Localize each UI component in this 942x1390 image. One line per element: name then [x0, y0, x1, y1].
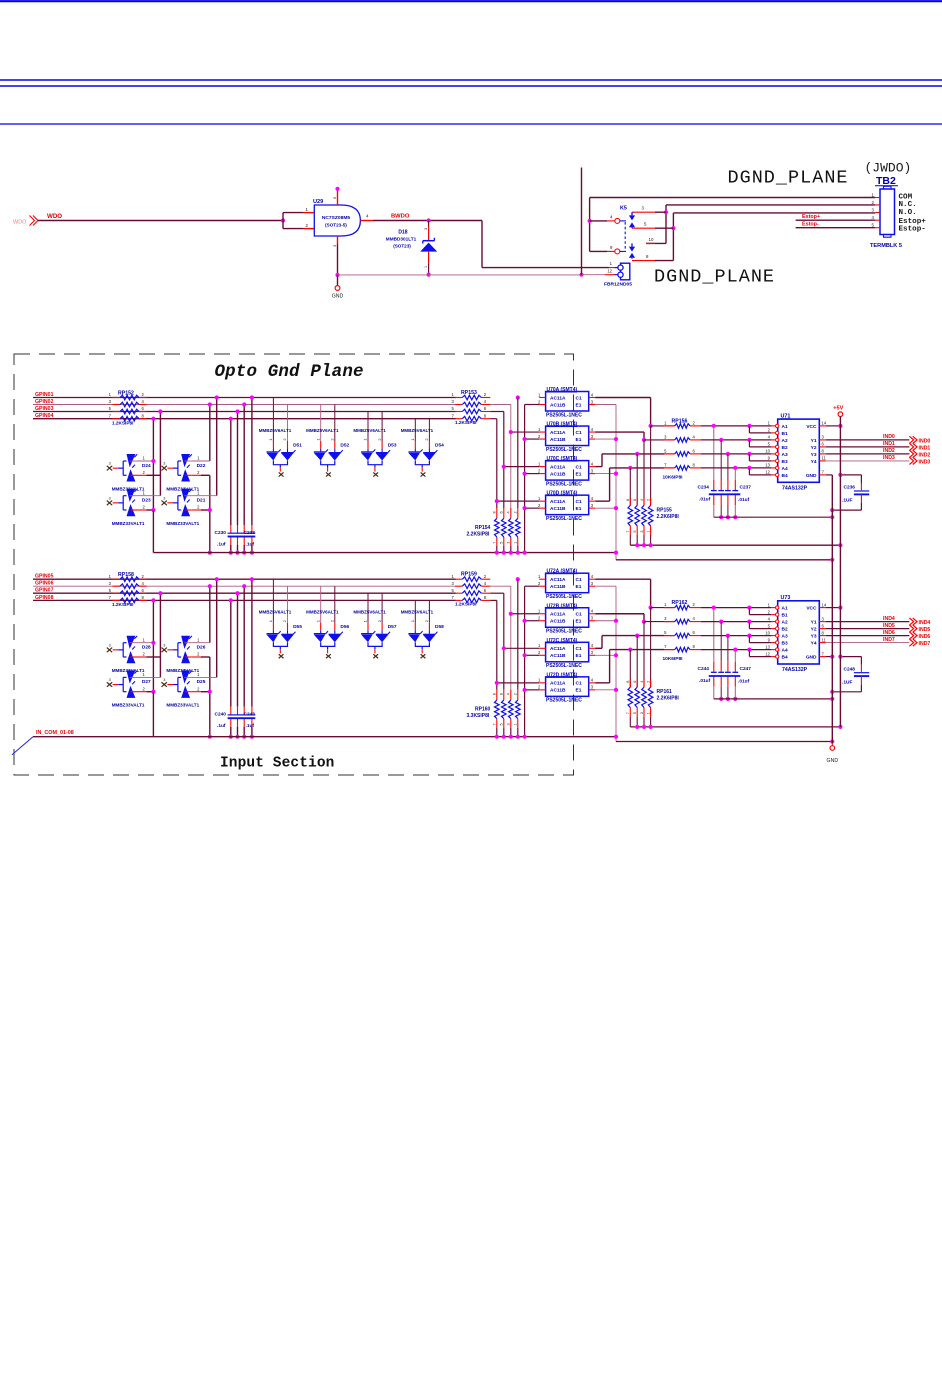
- svg-text:A3: A3: [782, 452, 788, 458]
- svg-text:4: 4: [610, 214, 613, 219]
- page border rule top: [0, 0, 942, 2]
- svg-text:1: 1: [538, 678, 541, 683]
- svg-text:C1: C1: [576, 430, 582, 436]
- wire filter column 3: [243, 405, 245, 526]
- svg-text:2: 2: [484, 392, 487, 397]
- wire gate B3 jog: [748, 636, 750, 643]
- svg-text:B3: B3: [782, 459, 788, 465]
- svg-text:D24: D24: [142, 463, 151, 469]
- tvs diode D51 MMBZ5V6ALT1: [272, 398, 274, 442]
- svg-text:A2: A2: [782, 438, 788, 444]
- wire TB2 pin2 NC to K5: [666, 204, 875, 206]
- svg-text:2: 2: [538, 399, 541, 404]
- pin 4 TB2: [875, 219, 880, 221]
- svg-text:1: 1: [610, 261, 613, 266]
- wire gate B1 jog: [748, 608, 750, 615]
- svg-text:IND0: IND0: [919, 438, 931, 444]
- svg-text:1.2KSIP8I: 1.2KSIP8I: [455, 420, 476, 425]
- svg-text:2.2K6IP8I: 2.2K6IP8I: [657, 514, 680, 520]
- svg-text:3: 3: [591, 650, 594, 655]
- svg-text:E1: E1: [576, 471, 582, 477]
- zener diode pair D26 MMBZ33VALT1: [162, 648, 167, 653]
- svg-text:2: 2: [424, 619, 429, 622]
- svg-text:AC11A: AC11A: [550, 681, 566, 687]
- wire output net IND0: [826, 439, 910, 441]
- svg-text:4: 4: [768, 616, 771, 621]
- tvs diode D58 MMBZ5V6ALT1: [414, 600, 416, 622]
- svg-text:RP162: RP162: [672, 600, 688, 606]
- svg-text:5: 5: [768, 623, 771, 628]
- port IND4: [909, 618, 913, 625]
- svg-text:12: 12: [607, 269, 612, 274]
- svg-text:1: 1: [646, 530, 650, 532]
- svg-text:MMBD301LT1: MMBD301LT1: [386, 237, 417, 242]
- svg-text:N.O.: N.O.: [899, 209, 917, 217]
- svg-text:8: 8: [693, 644, 696, 649]
- wire collector U_B to series resistor: [595, 431, 644, 433]
- svg-text:D56: D56: [340, 624, 349, 630]
- svg-text:1: 1: [872, 193, 875, 198]
- capacitor C230 .1uf: [228, 532, 242, 534]
- wire zener cluster row1 branch: [216, 579, 218, 677]
- svg-text:C1: C1: [576, 681, 582, 687]
- svg-text:1: 1: [514, 723, 518, 725]
- wire net GPIN07: [33, 592, 456, 594]
- svg-text:AC11B: AC11B: [550, 402, 566, 408]
- svg-text:C248: C248: [844, 666, 856, 672]
- svg-text:2: 2: [693, 420, 696, 425]
- svg-text:AC11B: AC11B: [550, 584, 566, 590]
- svg-text:E1: E1: [576, 653, 582, 659]
- svg-text:2: 2: [514, 511, 518, 513]
- wire gate B2 jog: [748, 622, 750, 629]
- svg-text:3: 3: [451, 581, 454, 586]
- resistor pack RP161 pull-ups: [650, 608, 652, 688]
- svg-text:2: 2: [197, 686, 200, 691]
- svg-text:IN_COM_01-08: IN_COM_01-08: [36, 730, 74, 736]
- svg-text:3: 3: [507, 542, 511, 544]
- svg-text:3: 3: [591, 616, 594, 621]
- svg-text:5: 5: [633, 712, 637, 714]
- svg-text:8: 8: [646, 254, 649, 259]
- svg-text:Y1: Y1: [811, 438, 817, 444]
- capacitor C236 .1UF bypass: [840, 474, 861, 476]
- svg-text:D51: D51: [293, 442, 302, 448]
- zener diode pair D22 MMBZ33VALT1: [162, 466, 167, 471]
- wire gate A3 input: [701, 635, 772, 637]
- svg-text:IND1: IND1: [883, 441, 895, 447]
- wire decoupling column 1: [713, 608, 715, 662]
- wire opto feed column 4: [490, 599, 497, 601]
- svg-text:C1: C1: [576, 395, 582, 401]
- svg-text:3: 3: [642, 206, 645, 211]
- wire net GPIN08: [33, 599, 456, 601]
- capacitor C244 .01uf: [711, 671, 717, 673]
- svg-text:1: 1: [538, 461, 541, 466]
- svg-text:4: 4: [591, 643, 594, 648]
- wire emitter common to ground rail: [616, 559, 832, 561]
- svg-text:12: 12: [765, 470, 770, 475]
- wire collector U_D to series resistor: [595, 500, 609, 502]
- svg-text:4: 4: [768, 435, 771, 440]
- wire U29 input split: [282, 213, 284, 229]
- svg-text:1: 1: [514, 542, 518, 544]
- svg-text:6: 6: [693, 448, 696, 453]
- wire filter column 1: [230, 600, 232, 706]
- pin 3 TB2: [875, 212, 880, 214]
- svg-text:AC11A: AC11A: [550, 646, 566, 652]
- svg-text:B4: B4: [782, 655, 788, 661]
- svg-text:GPIN04: GPIN04: [35, 413, 54, 419]
- pin 1 TB2: [875, 197, 880, 199]
- svg-text:1: 1: [451, 574, 454, 579]
- wire K5 pin10: [646, 242, 666, 244]
- svg-text:7: 7: [451, 413, 454, 418]
- svg-text:8: 8: [626, 499, 630, 501]
- svg-text:2: 2: [142, 686, 145, 691]
- svg-text:3: 3: [109, 581, 112, 586]
- svg-text:MMBZ5V6ALT1: MMBZ5V6ALT1: [306, 610, 339, 615]
- svg-text:11: 11: [822, 456, 827, 461]
- svg-text:2: 2: [424, 438, 429, 441]
- svg-text:A4: A4: [782, 466, 788, 472]
- svg-text:1: 1: [538, 609, 541, 614]
- svg-text:5: 5: [451, 588, 454, 593]
- svg-text:1: 1: [197, 672, 200, 677]
- wire zener cluster row1 branch: [216, 398, 218, 496]
- svg-text:2: 2: [646, 499, 650, 501]
- svg-text:5: 5: [872, 223, 875, 228]
- wire Estop+: [796, 219, 876, 221]
- svg-text:2: 2: [646, 681, 650, 683]
- svg-text:1: 1: [197, 490, 200, 495]
- svg-text:14: 14: [822, 602, 827, 607]
- svg-text:C1: C1: [576, 464, 582, 470]
- relay coil FBR12ND05: [609, 267, 615, 269]
- svg-text:Estop+: Estop+: [802, 214, 820, 220]
- svg-text:4: 4: [591, 427, 594, 432]
- wire collector U_A to series resistor: [595, 578, 650, 580]
- svg-text:MMBZ5V6ALT1: MMBZ5V6ALT1: [401, 428, 434, 433]
- svg-text:2: 2: [282, 619, 287, 622]
- svg-text:MMBZ5V6ALT1: MMBZ5V6ALT1: [259, 610, 292, 615]
- svg-text:4: 4: [366, 214, 369, 219]
- svg-text:PS2505L-1NEC: PS2505L-1NEC: [546, 629, 582, 635]
- pin 5 TB2: [875, 227, 880, 229]
- wire filter column 4: [251, 398, 253, 526]
- svg-text:1: 1: [109, 574, 112, 579]
- svg-text:9: 9: [768, 637, 771, 642]
- svg-text:2: 2: [197, 470, 200, 475]
- svg-text:E1: E1: [576, 688, 582, 694]
- svg-text:4: 4: [591, 392, 594, 397]
- svg-text:E1: E1: [576, 402, 582, 408]
- svg-text:Y3: Y3: [811, 452, 817, 458]
- svg-text:2: 2: [142, 470, 145, 475]
- wire TB2 pin1 COM to K5 common: [590, 197, 876, 199]
- wire opto cathode common: [525, 585, 540, 587]
- svg-text:3: 3: [591, 434, 594, 439]
- svg-text:RP156: RP156: [672, 418, 688, 424]
- port IND6: [909, 632, 913, 639]
- svg-text:6: 6: [693, 630, 696, 635]
- svg-text:PS2505L-1NEC: PS2505L-1NEC: [546, 594, 582, 600]
- svg-text:IND0: IND0: [883, 434, 895, 440]
- wire output net IND7: [826, 642, 910, 644]
- svg-text:5: 5: [109, 588, 112, 593]
- svg-text:MMBZ33VALT1: MMBZ33VALT1: [166, 521, 199, 526]
- svg-text:IND1: IND1: [919, 445, 931, 451]
- wire opto emitter common: [595, 404, 616, 406]
- svg-text:.01uf: .01uf: [738, 679, 750, 685]
- svg-text:2: 2: [514, 693, 518, 695]
- svg-text:C1: C1: [576, 577, 582, 583]
- tvs diode D52 MMBZ5V6ALT1: [320, 405, 322, 442]
- svg-text:2: 2: [538, 434, 541, 439]
- wire K5 pin3: [632, 211, 655, 213]
- svg-text:(JWDO): (JWDO): [865, 161, 912, 176]
- wire gate B1 jog: [748, 426, 750, 433]
- svg-text:5: 5: [109, 406, 112, 411]
- wire zener cluster branch D pair: [209, 657, 211, 737]
- svg-text:DGND_PLANE: DGND_PLANE: [728, 168, 849, 189]
- svg-text:1: 1: [268, 438, 273, 441]
- svg-text:A2: A2: [782, 620, 788, 626]
- wire gate A1 input: [701, 425, 772, 427]
- svg-text:D58: D58: [435, 624, 444, 630]
- svg-text:3: 3: [822, 616, 825, 621]
- svg-text:C240: C240: [215, 712, 227, 718]
- svg-text:8: 8: [484, 413, 487, 418]
- svg-text:1: 1: [451, 392, 454, 397]
- svg-text:2: 2: [142, 392, 145, 397]
- svg-text:3: 3: [640, 530, 644, 532]
- svg-text:GPIN01: GPIN01: [35, 392, 54, 398]
- svg-text:3: 3: [872, 208, 875, 213]
- svg-text:3: 3: [163, 496, 165, 500]
- svg-text:C1: C1: [576, 499, 582, 505]
- svg-text:(SOT23-5): (SOT23-5): [325, 223, 347, 228]
- svg-text:7: 7: [451, 595, 454, 600]
- svg-text:.1uf: .1uf: [246, 541, 255, 547]
- svg-text:1: 1: [538, 496, 541, 501]
- wire opto feed column 1: [516, 577, 520, 581]
- svg-text:7: 7: [109, 413, 112, 418]
- resistor pack RP160 vertical: [516, 700, 521, 719]
- capacitor C247 .01uf: [725, 671, 731, 673]
- wire decoupling column 4: [734, 468, 736, 480]
- svg-text:4: 4: [591, 574, 594, 579]
- wire BWDO net: [373, 220, 482, 222]
- svg-text:1.2KSIP8I: 1.2KSIP8I: [112, 602, 133, 607]
- svg-text:1: 1: [306, 207, 309, 212]
- tvs diode D54 MMBZ5V6ALT1: [414, 419, 416, 441]
- wire net GPIN05: [33, 578, 456, 580]
- svg-text:8: 8: [693, 462, 696, 467]
- svg-text:AC11A: AC11A: [550, 499, 566, 505]
- svg-text:AC11B: AC11B: [550, 619, 566, 625]
- svg-text:AC11B: AC11B: [550, 506, 566, 512]
- svg-text:8: 8: [142, 595, 145, 600]
- wire gate A2 input: [701, 621, 772, 623]
- svg-text:Input Section: Input Section: [220, 756, 334, 772]
- svg-text:RP155: RP155: [657, 508, 673, 514]
- wire zener cluster branch D pair: [209, 475, 211, 552]
- wire WDO to U29 inputs: [38, 220, 283, 222]
- svg-text:3: 3: [109, 399, 112, 404]
- svg-text:7: 7: [626, 712, 630, 714]
- svg-text:.01uf: .01uf: [699, 496, 711, 502]
- svg-text:GND: GND: [806, 655, 817, 661]
- svg-text:PS2505L-1NEC: PS2505L-1NEC: [546, 481, 582, 487]
- svg-text:1: 1: [410, 438, 415, 441]
- svg-text:2: 2: [484, 574, 487, 579]
- svg-text:WDO: WDO: [13, 220, 27, 226]
- svg-text:MMBZ33VALT1: MMBZ33VALT1: [166, 703, 199, 708]
- svg-text:D52: D52: [340, 442, 349, 448]
- zener diode pair D27 MMBZ33VALT1: [107, 682, 112, 687]
- svg-text:1: 1: [315, 619, 320, 622]
- svg-text:3: 3: [591, 468, 594, 473]
- wire pull-up bus to +5V rail: [630, 544, 840, 546]
- svg-text:D57: D57: [388, 624, 397, 630]
- svg-text:AC11B: AC11B: [550, 653, 566, 659]
- svg-text:E1: E1: [576, 506, 582, 512]
- wire opto feed column 2: [490, 404, 511, 406]
- svg-text:8: 8: [822, 449, 825, 454]
- resistor pack RP154 vertical: [516, 518, 521, 537]
- svg-text:1: 1: [768, 421, 771, 426]
- svg-text:2: 2: [377, 438, 382, 441]
- capacitor C243 .1uf: [241, 714, 255, 716]
- svg-text:6: 6: [500, 693, 504, 695]
- svg-text:C234: C234: [698, 484, 710, 490]
- svg-text:2: 2: [768, 609, 771, 614]
- svg-text:.01uf: .01uf: [699, 678, 711, 684]
- wire GND pin U71: [826, 474, 833, 476]
- svg-text:E1: E1: [576, 584, 582, 590]
- tvs diode D56 MMBZ5V6ALT1: [320, 586, 322, 623]
- svg-text:B2: B2: [782, 445, 788, 451]
- svg-text:C236: C236: [844, 485, 856, 491]
- svg-text:8: 8: [822, 630, 825, 635]
- svg-text:D18: D18: [398, 229, 407, 235]
- svg-text:DGND_PLANE: DGND_PLANE: [654, 267, 775, 288]
- svg-text:.1UF: .1UF: [842, 679, 852, 685]
- svg-text:8: 8: [493, 693, 497, 695]
- wire opto feed column 4: [490, 418, 497, 420]
- svg-text:WDO: WDO: [47, 213, 62, 220]
- wire collector U_D to series resistor: [595, 682, 609, 684]
- svg-text:AC11B: AC11B: [550, 471, 566, 477]
- svg-text:C233: C233: [244, 530, 256, 536]
- svg-text:MMBZ5V6ALT1: MMBZ5V6ALT1: [353, 428, 386, 433]
- wire K5 pin8: [632, 260, 655, 262]
- svg-text:Estop-: Estop-: [802, 222, 819, 228]
- svg-text:10K6IP8I: 10K6IP8I: [663, 656, 684, 662]
- svg-text:GPIN06: GPIN06: [35, 581, 54, 587]
- svg-text:VCC: VCC: [806, 424, 817, 430]
- capacitor C234 .01uf: [711, 490, 717, 492]
- wire net GPIN03: [33, 411, 456, 413]
- wire VCC U71: [826, 425, 841, 427]
- svg-text:D53: D53: [388, 442, 397, 448]
- wire gate B4 jog: [748, 650, 750, 657]
- wire decoupling column 2: [720, 622, 722, 662]
- svg-text:1: 1: [538, 392, 541, 397]
- svg-text:4: 4: [507, 511, 511, 513]
- svg-text:A1: A1: [782, 424, 788, 430]
- wire filter column 3: [243, 586, 245, 707]
- svg-text:IND5: IND5: [919, 627, 931, 633]
- svg-text:1: 1: [142, 672, 145, 677]
- port IND5: [909, 625, 913, 632]
- svg-text:3: 3: [109, 643, 111, 647]
- svg-text:IND2: IND2: [919, 452, 931, 458]
- wire decoupling column 3: [727, 454, 729, 480]
- svg-text:A4: A4: [782, 648, 788, 654]
- svg-text:4: 4: [507, 693, 511, 695]
- wire +5V rail: [839, 417, 841, 727]
- svg-text:BWDO: BWDO: [391, 214, 410, 220]
- svg-text:IND3: IND3: [919, 459, 931, 465]
- svg-text:D26: D26: [197, 645, 206, 651]
- svg-text:D23: D23: [142, 498, 151, 504]
- svg-text:3: 3: [109, 678, 111, 682]
- svg-text:7: 7: [109, 595, 112, 600]
- svg-text:Y3: Y3: [811, 634, 817, 640]
- svg-text:B4: B4: [782, 473, 788, 479]
- svg-text:B1: B1: [782, 613, 788, 619]
- svg-text:5: 5: [664, 448, 667, 453]
- capacitor C240 .1uf: [228, 714, 242, 716]
- svg-text:Y2: Y2: [811, 627, 817, 633]
- svg-text:IND7: IND7: [883, 637, 895, 643]
- svg-text:MMBZ33VALT1: MMBZ33VALT1: [112, 521, 145, 526]
- dashed boundary Opto Gnd Plane box: [14, 354, 574, 775]
- pin 2 TB2: [875, 204, 880, 206]
- wire opto feed column 3: [490, 411, 504, 413]
- wire collector U_A to series resistor: [595, 397, 650, 399]
- svg-text:C244: C244: [698, 666, 710, 672]
- svg-text:Estop-: Estop-: [899, 225, 926, 233]
- svg-text:AC11A: AC11A: [550, 577, 566, 583]
- svg-text:4: 4: [693, 434, 696, 439]
- svg-text:1: 1: [363, 619, 368, 622]
- svg-text:B3: B3: [782, 641, 788, 647]
- wire opto feed column 2: [490, 585, 511, 587]
- svg-text:MMBZ33VALT1: MMBZ33VALT1: [112, 703, 145, 708]
- svg-text:Y4: Y4: [811, 641, 817, 647]
- svg-text:.1uf: .1uf: [217, 541, 226, 547]
- wire decoupling column 1: [713, 426, 715, 480]
- svg-text:2: 2: [693, 602, 696, 607]
- svg-text:2: 2: [142, 652, 145, 657]
- wire opto feed column 1: [516, 395, 520, 399]
- svg-text:K5: K5: [620, 205, 627, 211]
- svg-text:AC11A: AC11A: [550, 395, 566, 401]
- svg-text:3: 3: [591, 503, 594, 508]
- wire collector U_B to series resistor: [595, 613, 644, 615]
- wire net GPIN06: [33, 585, 456, 587]
- svg-text:GPIN02: GPIN02: [35, 399, 54, 405]
- U29 ground pin 3: [337, 236, 339, 244]
- svg-text:GND: GND: [827, 758, 839, 764]
- svg-text:PS2505L-1NEC: PS2505L-1NEC: [546, 698, 582, 704]
- svg-text:2: 2: [538, 616, 541, 621]
- wire pull-up bus to +5V rail: [630, 726, 840, 728]
- off page connector slash: [12, 737, 33, 755]
